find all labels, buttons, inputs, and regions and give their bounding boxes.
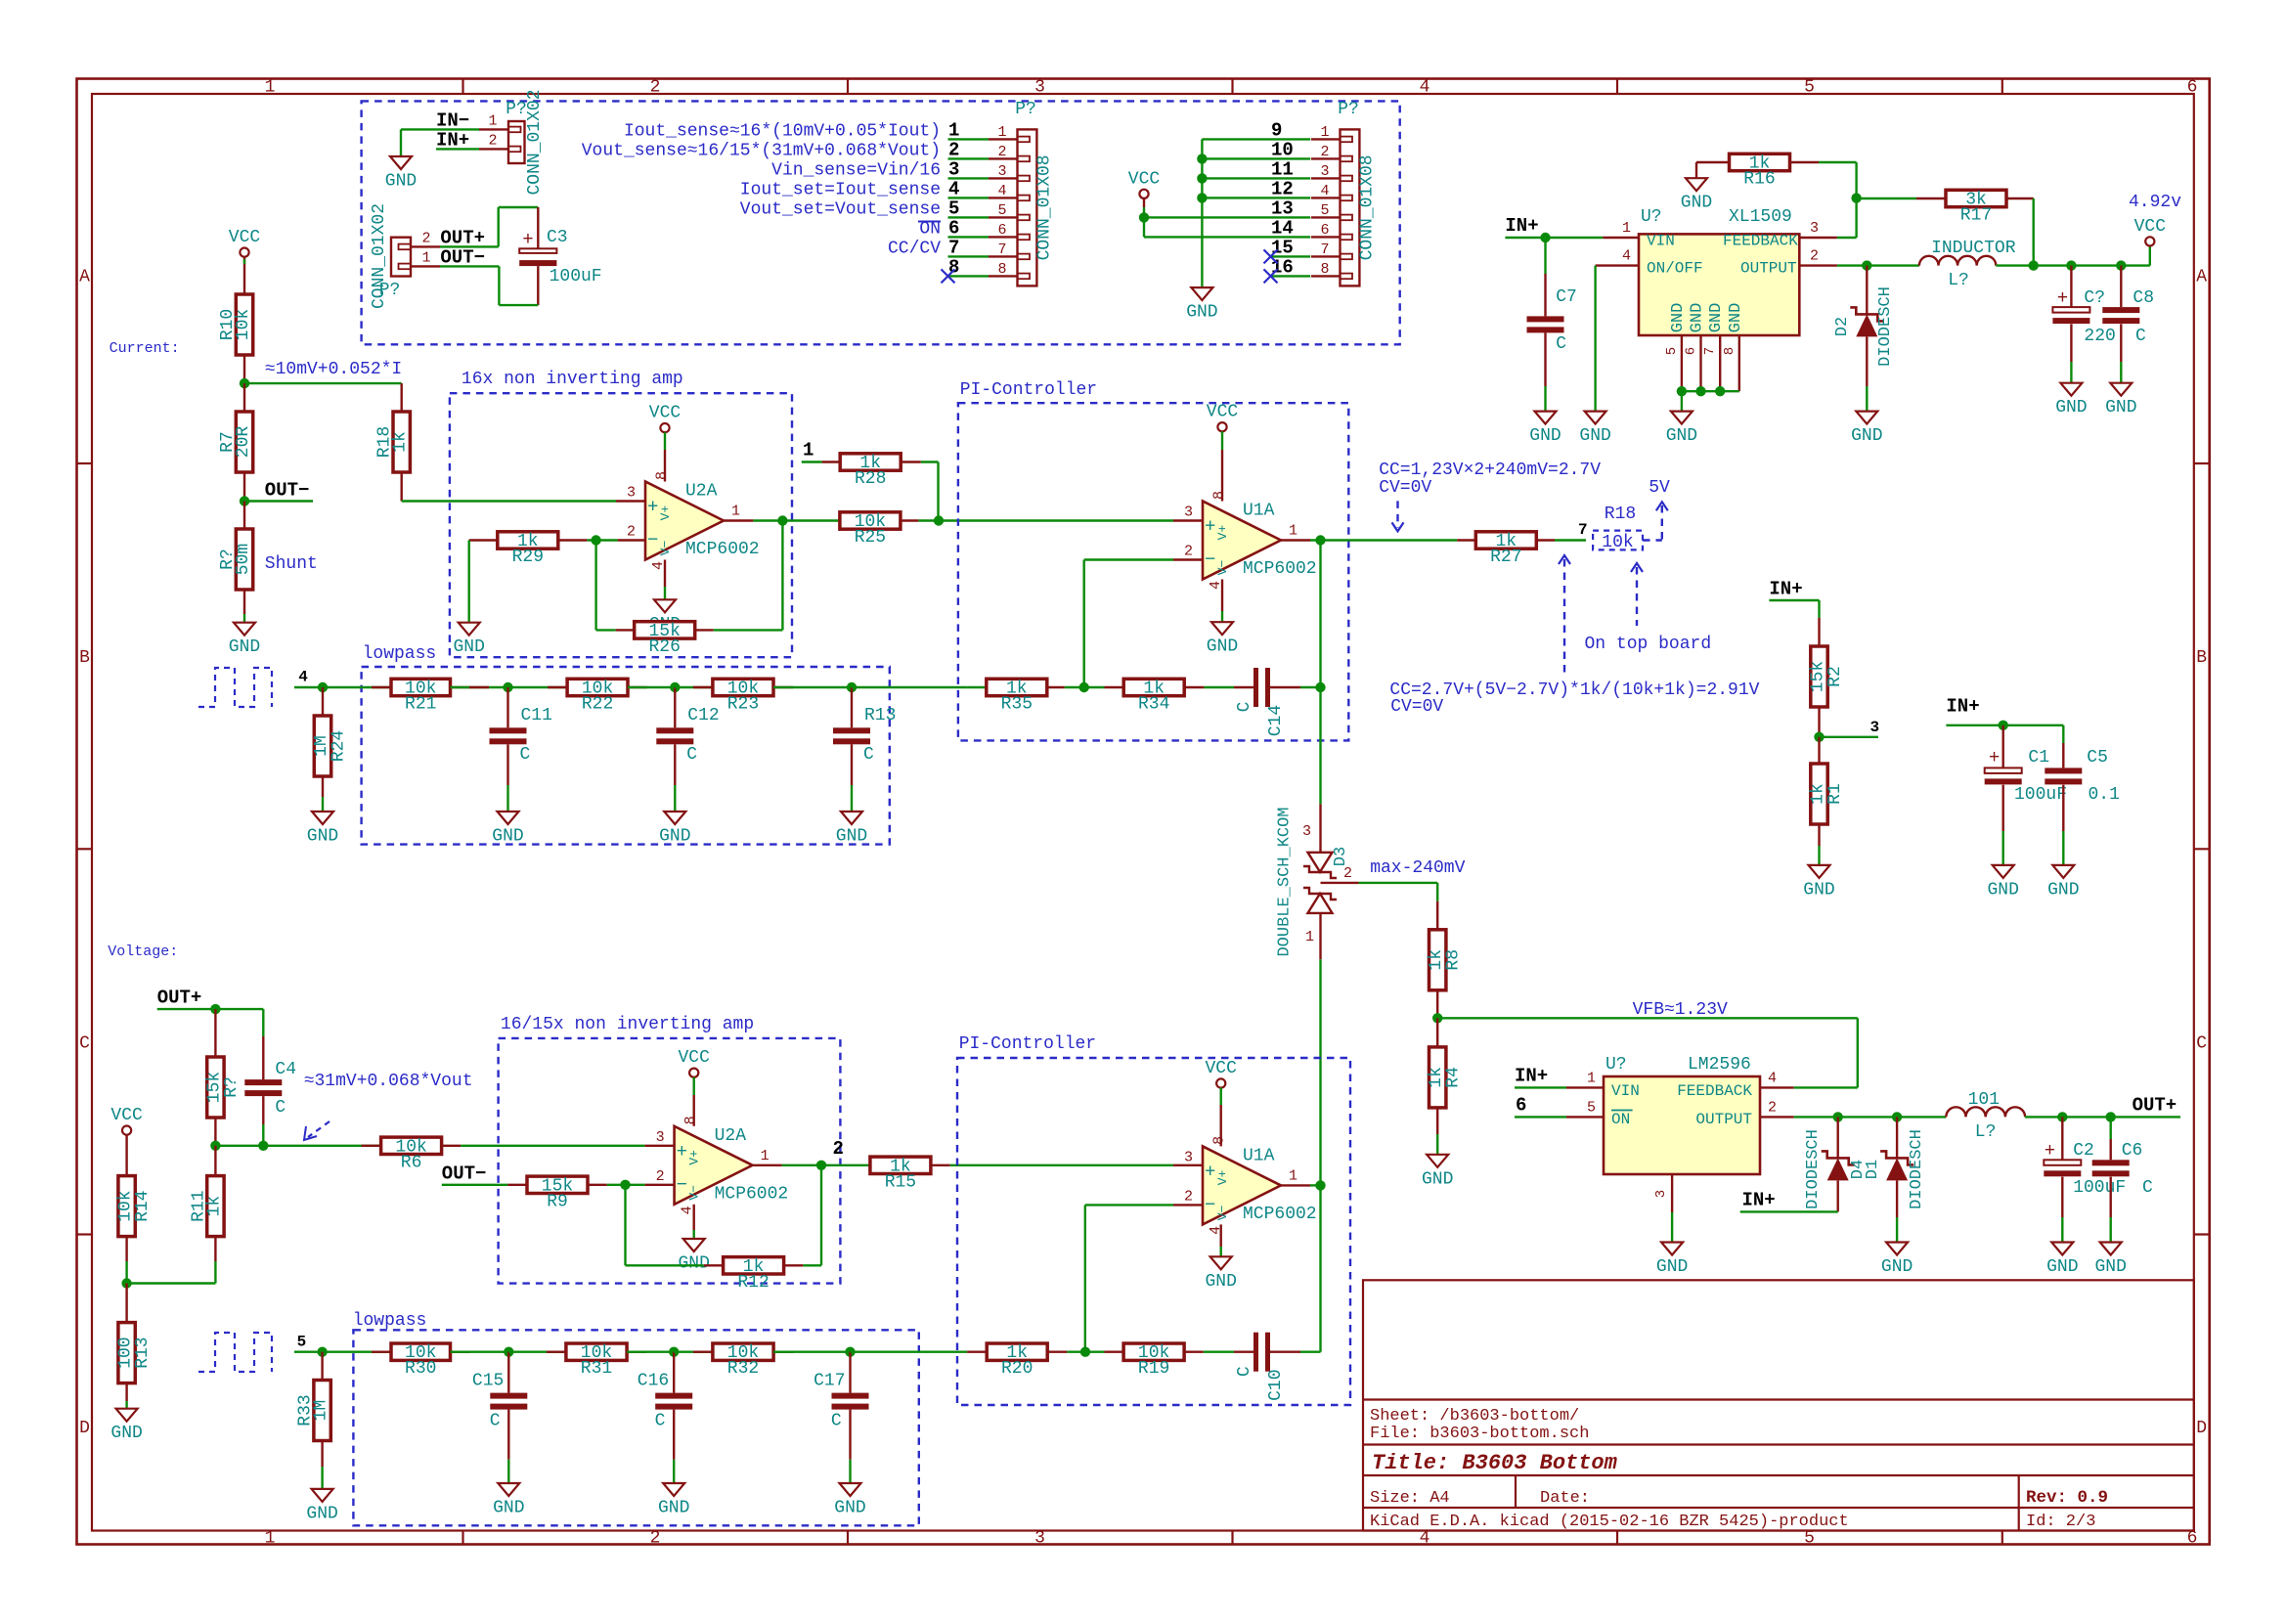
svg-text:L?: L? bbox=[1948, 271, 1969, 290]
svg-text:Date:: Date: bbox=[1540, 1489, 1590, 1508]
svg-text:≈31mV+0.068*Vout: ≈31mV+0.068*Vout bbox=[304, 1072, 473, 1091]
svg-text:C1: C1 bbox=[2028, 748, 2049, 768]
svg-text:1: 1 bbox=[421, 250, 430, 267]
svg-text:GND: GND bbox=[1851, 426, 1882, 446]
svg-text:R16: R16 bbox=[1743, 170, 1775, 190]
svg-text:P?: P? bbox=[1015, 100, 1036, 119]
svg-text:XL1509: XL1509 bbox=[1729, 207, 1792, 227]
svg-text:1: 1 bbox=[948, 119, 959, 141]
svg-text:Id: 2/3: Id: 2/3 bbox=[2026, 1513, 2095, 1531]
svg-text:FEEDBACK: FEEDBACK bbox=[1677, 1082, 1752, 1100]
svg-text:CONN_01X08: CONN_01X08 bbox=[1035, 154, 1055, 260]
svg-text:Sheet: /b3603-bottom/: Sheet: /b3603-bottom/ bbox=[1370, 1407, 1579, 1426]
svg-text:5: 5 bbox=[297, 1334, 307, 1351]
svg-text:2: 2 bbox=[833, 1138, 844, 1160]
svg-text:C: C bbox=[655, 1412, 666, 1431]
svg-text:13: 13 bbox=[1271, 198, 1294, 219]
svg-text:3: 3 bbox=[997, 163, 1006, 180]
svg-text:2: 2 bbox=[1343, 865, 1352, 882]
svg-text:2: 2 bbox=[650, 78, 661, 98]
svg-text:OUT+: OUT+ bbox=[2133, 1094, 2177, 1116]
svg-text:C8: C8 bbox=[2133, 288, 2154, 308]
svg-text:1: 1 bbox=[488, 113, 497, 130]
svg-text:R26: R26 bbox=[648, 637, 680, 657]
svg-text:R1: R1 bbox=[1825, 783, 1845, 805]
svg-text:C6: C6 bbox=[2122, 1141, 2143, 1161]
svg-text:C: C bbox=[2135, 327, 2146, 346]
svg-text:6: 6 bbox=[1320, 222, 1329, 239]
svg-text:VCC: VCC bbox=[1205, 1059, 1237, 1078]
svg-text:GND: GND bbox=[1422, 1169, 1453, 1189]
svg-text:lowpass: lowpass bbox=[353, 1311, 427, 1331]
svg-text:GND: GND bbox=[492, 827, 523, 847]
svg-text:R8: R8 bbox=[1444, 949, 1464, 971]
svg-text:GND: GND bbox=[493, 1499, 524, 1518]
svg-text:CC/CV: CC/CV bbox=[888, 239, 941, 258]
svg-text:C: C bbox=[275, 1098, 286, 1118]
svg-text:U1A: U1A bbox=[1243, 1146, 1275, 1165]
svg-text:MCP6002: MCP6002 bbox=[1243, 559, 1317, 579]
svg-text:OUTPUT: OUTPUT bbox=[1695, 1111, 1752, 1128]
svg-text:Vin_sense=Vin/16: Vin_sense=Vin/16 bbox=[771, 160, 941, 180]
svg-text:R31: R31 bbox=[581, 1359, 612, 1379]
svg-text:IN+: IN+ bbox=[1515, 1065, 1548, 1086]
svg-text:3: 3 bbox=[1034, 1529, 1045, 1549]
svg-text:C: C bbox=[1235, 1366, 1254, 1377]
svg-text:R7: R7 bbox=[218, 431, 238, 453]
svg-text:C5: C5 bbox=[2087, 748, 2108, 768]
svg-text:R33: R33 bbox=[296, 1394, 316, 1426]
svg-text:C11: C11 bbox=[521, 706, 552, 725]
svg-text:GND: GND bbox=[1689, 303, 1707, 333]
svg-text:GND: GND bbox=[1656, 1257, 1688, 1277]
svg-text:VCC: VCC bbox=[1207, 403, 1239, 422]
svg-text:+: + bbox=[2045, 1140, 2055, 1162]
svg-text:C: C bbox=[686, 745, 697, 765]
svg-text:GND: GND bbox=[1707, 303, 1726, 333]
svg-text:+: + bbox=[647, 497, 658, 518]
svg-text:CC=1,23V×2+240mV=2.7V: CC=1,23V×2+240mV=2.7V bbox=[1379, 461, 1601, 480]
svg-text:2: 2 bbox=[656, 1168, 665, 1185]
svg-text:V+: V+ bbox=[1215, 525, 1230, 541]
svg-text:D: D bbox=[79, 1419, 90, 1438]
svg-text:2: 2 bbox=[997, 144, 1006, 160]
svg-text:C: C bbox=[863, 745, 874, 765]
svg-text:100uF: 100uF bbox=[2073, 1178, 2126, 1198]
svg-text:15: 15 bbox=[1271, 237, 1294, 258]
svg-text:R28: R28 bbox=[855, 469, 886, 489]
svg-text:3: 3 bbox=[1320, 163, 1329, 180]
svg-text:1: 1 bbox=[1289, 523, 1297, 540]
svg-text:V−: V− bbox=[1215, 560, 1230, 576]
svg-text:C: C bbox=[2196, 1033, 2207, 1053]
svg-text:1: 1 bbox=[761, 1148, 770, 1164]
svg-text:max-240mV: max-240mV bbox=[1370, 858, 1465, 878]
svg-text:C16: C16 bbox=[638, 1372, 669, 1391]
svg-text:C: C bbox=[2142, 1178, 2153, 1198]
svg-text:2: 2 bbox=[650, 1529, 661, 1549]
svg-text:101: 101 bbox=[1968, 1090, 2000, 1110]
svg-text:GND: GND bbox=[658, 1499, 689, 1518]
svg-text:3: 3 bbox=[948, 158, 959, 180]
svg-text:2: 2 bbox=[1810, 248, 1819, 265]
svg-text:R10: R10 bbox=[218, 309, 238, 340]
svg-text:3: 3 bbox=[1870, 719, 1880, 736]
svg-text:7: 7 bbox=[1578, 521, 1588, 539]
svg-text:VCC: VCC bbox=[649, 404, 682, 423]
svg-text:ON: ON bbox=[1611, 1111, 1630, 1128]
svg-text:R6: R6 bbox=[401, 1153, 422, 1172]
svg-text:R23: R23 bbox=[727, 695, 759, 715]
svg-text:R18: R18 bbox=[375, 426, 395, 458]
svg-text:R32: R32 bbox=[727, 1359, 759, 1379]
svg-text:GND: GND bbox=[2046, 1257, 2078, 1277]
svg-text:12: 12 bbox=[1271, 178, 1294, 199]
svg-text:V+: V+ bbox=[658, 505, 673, 521]
svg-text:V−: V− bbox=[1215, 1205, 1230, 1220]
svg-text:3: 3 bbox=[1184, 1149, 1193, 1165]
svg-text:8: 8 bbox=[997, 261, 1006, 278]
svg-text:Iout_sense≈16*(10mV+0.05*Iout): Iout_sense≈16*(10mV+0.05*Iout) bbox=[624, 121, 941, 141]
svg-text:D2: D2 bbox=[1833, 317, 1852, 336]
svg-text:GND: GND bbox=[2105, 398, 2136, 417]
svg-text:6: 6 bbox=[1684, 347, 1699, 355]
svg-text:R14: R14 bbox=[133, 1190, 153, 1221]
svg-text:8: 8 bbox=[1211, 491, 1228, 500]
svg-text:U2A: U2A bbox=[715, 1126, 747, 1146]
svg-text:1: 1 bbox=[1320, 124, 1329, 141]
svg-text:ON/OFF: ON/OFF bbox=[1647, 259, 1703, 277]
svg-text:Shunt: Shunt bbox=[265, 554, 318, 574]
svg-text:GND: GND bbox=[453, 637, 484, 657]
svg-text:GND: GND bbox=[1681, 194, 1712, 213]
svg-text:B: B bbox=[79, 648, 90, 668]
svg-text:3: 3 bbox=[1810, 220, 1819, 237]
svg-text:R21: R21 bbox=[405, 695, 436, 715]
svg-text:2: 2 bbox=[488, 133, 497, 150]
svg-text:2: 2 bbox=[1184, 1188, 1193, 1205]
svg-text:8: 8 bbox=[654, 471, 671, 480]
svg-text:R20: R20 bbox=[1001, 1359, 1033, 1379]
svg-text:5V: 5V bbox=[1649, 478, 1670, 498]
svg-text:GND: GND bbox=[1205, 1272, 1236, 1292]
svg-text:16x non inverting amp: 16x non inverting amp bbox=[462, 370, 683, 389]
svg-text:1: 1 bbox=[997, 124, 1006, 141]
svg-text:U2A: U2A bbox=[685, 482, 718, 502]
svg-text:R?: R? bbox=[218, 549, 238, 570]
svg-text:3: 3 bbox=[1653, 1190, 1669, 1198]
svg-text:−: − bbox=[1205, 549, 1215, 571]
svg-text:U?: U? bbox=[1605, 1055, 1627, 1075]
svg-text:IN+: IN+ bbox=[1742, 1189, 1776, 1210]
svg-text:5: 5 bbox=[948, 198, 959, 219]
svg-text:−: − bbox=[647, 530, 658, 551]
svg-text:C: C bbox=[1556, 334, 1566, 354]
svg-text:GND: GND bbox=[110, 1424, 142, 1443]
svg-text:4: 4 bbox=[1320, 183, 1329, 199]
svg-text:C: C bbox=[831, 1412, 842, 1431]
svg-text:7: 7 bbox=[997, 241, 1006, 258]
svg-text:3: 3 bbox=[627, 485, 636, 502]
svg-text:A: A bbox=[2196, 268, 2207, 287]
svg-text:1: 1 bbox=[1587, 1070, 1596, 1086]
svg-text:GND: GND bbox=[1987, 880, 2018, 900]
svg-text:lowpass: lowpass bbox=[363, 644, 437, 664]
svg-text:7: 7 bbox=[948, 237, 959, 258]
svg-text:R13: R13 bbox=[133, 1337, 153, 1368]
svg-text:CV=0V: CV=0V bbox=[1379, 478, 1431, 498]
svg-text:R13: R13 bbox=[864, 706, 896, 725]
svg-text:KiCad E.D.A. kicad (2015-02-1: KiCad E.D.A. kicad (2015-02-16 BZR 5425)… bbox=[1370, 1513, 1849, 1531]
svg-text:OUTPUT: OUTPUT bbox=[1740, 259, 1797, 277]
svg-text:GND: GND bbox=[1529, 426, 1561, 446]
svg-text:GND: GND bbox=[1803, 880, 1834, 900]
svg-text:GND: GND bbox=[1207, 637, 1238, 657]
svg-text:V−: V− bbox=[658, 541, 673, 556]
svg-text:−: − bbox=[677, 1174, 687, 1196]
svg-text:C: C bbox=[490, 1412, 501, 1431]
svg-text:VCC: VCC bbox=[678, 1048, 710, 1068]
svg-text:9: 9 bbox=[1271, 119, 1282, 141]
svg-text:R22: R22 bbox=[582, 695, 613, 715]
svg-text:5: 5 bbox=[997, 202, 1006, 219]
svg-text:File: b3603-bottom.sch: File: b3603-bottom.sch bbox=[1370, 1425, 1589, 1443]
svg-text:OUT−: OUT− bbox=[440, 246, 485, 268]
svg-text:GND: GND bbox=[1669, 303, 1688, 333]
svg-text:DIODESCH: DIODESCH bbox=[1804, 1129, 1823, 1209]
svg-text:C?: C? bbox=[2084, 288, 2105, 308]
svg-text:R2: R2 bbox=[1825, 666, 1845, 687]
svg-text:Voltage:: Voltage: bbox=[108, 944, 178, 960]
svg-text:R15: R15 bbox=[885, 1172, 916, 1192]
svg-text:+: + bbox=[1205, 516, 1215, 538]
svg-text:VCC: VCC bbox=[2134, 217, 2167, 237]
svg-text:−: − bbox=[1205, 1194, 1215, 1215]
svg-text:3: 3 bbox=[656, 1129, 665, 1146]
svg-text:VIN: VIN bbox=[1611, 1082, 1640, 1100]
svg-text:R27: R27 bbox=[1490, 548, 1521, 567]
svg-text:IN+: IN+ bbox=[1505, 215, 1538, 237]
svg-text:GND: GND bbox=[1881, 1257, 1913, 1277]
svg-text:IN+: IN+ bbox=[1769, 578, 1802, 599]
svg-text:5: 5 bbox=[1804, 78, 1815, 98]
svg-text:1: 1 bbox=[1289, 1167, 1297, 1184]
svg-text:GND: GND bbox=[836, 827, 867, 847]
svg-text:100uF: 100uF bbox=[2014, 785, 2067, 805]
svg-text:4: 4 bbox=[298, 669, 308, 686]
svg-text:Vout_set=Vout_sense: Vout_set=Vout_sense bbox=[740, 199, 941, 219]
svg-text:GND: GND bbox=[1579, 426, 1610, 446]
svg-text:DOUBLE_SCH_KCOM: DOUBLE_SCH_KCOM bbox=[1276, 807, 1295, 956]
svg-text:7: 7 bbox=[1702, 347, 1718, 355]
svg-text:V+: V+ bbox=[687, 1150, 702, 1165]
svg-text:On top board: On top board bbox=[1585, 635, 1712, 654]
svg-text:GND: GND bbox=[385, 172, 417, 192]
svg-text:2: 2 bbox=[421, 231, 430, 247]
svg-text:1: 1 bbox=[265, 78, 276, 98]
svg-text:1: 1 bbox=[731, 504, 740, 520]
svg-text:4: 4 bbox=[1420, 78, 1430, 98]
svg-text:16/15x non inverting amp: 16/15x non inverting amp bbox=[501, 1015, 754, 1034]
svg-text:R35: R35 bbox=[1001, 695, 1033, 715]
svg-text:5: 5 bbox=[1320, 202, 1329, 219]
svg-text:IN+: IN+ bbox=[1946, 696, 1979, 718]
svg-text:U?: U? bbox=[1641, 207, 1662, 227]
svg-text:220: 220 bbox=[2084, 327, 2115, 346]
svg-text:GND: GND bbox=[678, 1254, 709, 1274]
svg-text:Size: A4: Size: A4 bbox=[1370, 1489, 1450, 1508]
svg-text:≈10mV+0.052*I: ≈10mV+0.052*I bbox=[265, 360, 402, 379]
svg-text:R17: R17 bbox=[1960, 206, 1992, 226]
svg-text:R34: R34 bbox=[1138, 695, 1169, 715]
svg-text:MCP6002: MCP6002 bbox=[1243, 1205, 1317, 1224]
svg-text:FEEDBACK: FEEDBACK bbox=[1723, 233, 1798, 250]
svg-text:1: 1 bbox=[1622, 220, 1631, 237]
svg-text:5: 5 bbox=[1587, 1099, 1596, 1116]
svg-text:2: 2 bbox=[948, 139, 959, 160]
svg-text:VIN: VIN bbox=[1647, 233, 1675, 250]
svg-text:3: 3 bbox=[1302, 823, 1311, 840]
svg-text:R24: R24 bbox=[330, 730, 349, 762]
svg-text:V−: V− bbox=[687, 1185, 702, 1201]
svg-text:V+: V+ bbox=[1215, 1169, 1230, 1185]
svg-text:DIODESCH: DIODESCH bbox=[1908, 1129, 1926, 1209]
svg-text:IN−: IN− bbox=[436, 110, 469, 131]
svg-text:LM2596: LM2596 bbox=[1688, 1055, 1751, 1075]
svg-text:PI-Controller: PI-Controller bbox=[959, 1034, 1096, 1054]
svg-text:4: 4 bbox=[997, 183, 1006, 199]
svg-text:2: 2 bbox=[1768, 1099, 1777, 1116]
svg-text:OUT−: OUT− bbox=[442, 1163, 487, 1184]
svg-text:C4: C4 bbox=[275, 1060, 296, 1079]
svg-text:GND: GND bbox=[2047, 880, 2079, 900]
svg-text:VCC: VCC bbox=[1128, 169, 1161, 189]
svg-text:C17: C17 bbox=[814, 1372, 845, 1391]
svg-text:CONN_01X02: CONN_01X02 bbox=[525, 89, 545, 195]
svg-text:GND: GND bbox=[306, 1504, 337, 1523]
svg-text:GND: GND bbox=[229, 637, 260, 657]
svg-text:1: 1 bbox=[265, 1529, 276, 1549]
svg-text:D1: D1 bbox=[1864, 1160, 1882, 1179]
svg-text:C: C bbox=[1235, 701, 1254, 712]
svg-text:7: 7 bbox=[1320, 241, 1329, 258]
svg-text:VFB≈1.23V: VFB≈1.23V bbox=[1633, 1000, 1728, 1020]
svg-text:10k: 10k bbox=[1602, 533, 1633, 552]
svg-text:0.1: 0.1 bbox=[2089, 785, 2120, 805]
svg-text:R29: R29 bbox=[512, 548, 544, 567]
svg-text:GND: GND bbox=[1666, 426, 1697, 446]
svg-text:8: 8 bbox=[682, 1116, 699, 1124]
svg-text:C: C bbox=[79, 1033, 90, 1053]
svg-text:Current:: Current: bbox=[110, 340, 180, 357]
svg-text:U1A: U1A bbox=[1243, 502, 1275, 521]
svg-text:+: + bbox=[1989, 747, 2000, 768]
svg-text:2: 2 bbox=[1320, 144, 1329, 160]
svg-text:+: + bbox=[677, 1141, 687, 1163]
svg-text:11: 11 bbox=[1271, 158, 1294, 180]
svg-text:4.92v: 4.92v bbox=[2129, 193, 2181, 212]
svg-text:1: 1 bbox=[803, 440, 814, 461]
svg-text:R?: R? bbox=[222, 1076, 242, 1098]
svg-text:8: 8 bbox=[1320, 261, 1329, 278]
svg-text:C10: C10 bbox=[1266, 1369, 1286, 1400]
svg-text:C15: C15 bbox=[472, 1372, 504, 1391]
svg-text:4: 4 bbox=[1768, 1070, 1777, 1086]
svg-text:B: B bbox=[2196, 648, 2207, 668]
svg-text:+: + bbox=[522, 229, 533, 250]
svg-text:R4: R4 bbox=[1444, 1067, 1464, 1088]
svg-text:CONN_01X02: CONN_01X02 bbox=[370, 203, 389, 309]
svg-text:R25: R25 bbox=[855, 528, 886, 548]
svg-text:+: + bbox=[1205, 1161, 1215, 1182]
svg-text:C7: C7 bbox=[1556, 287, 1577, 307]
svg-text:Iout_set=Iout_sense: Iout_set=Iout_sense bbox=[740, 180, 941, 199]
svg-text:R19: R19 bbox=[1138, 1359, 1169, 1379]
svg-text:C2: C2 bbox=[2073, 1141, 2094, 1161]
svg-text:3: 3 bbox=[1034, 78, 1045, 98]
svg-text:VCC: VCC bbox=[110, 1106, 143, 1125]
svg-text:C3: C3 bbox=[547, 228, 568, 247]
svg-text:GND: GND bbox=[834, 1499, 865, 1518]
svg-text:A: A bbox=[79, 268, 90, 287]
svg-text:P?: P? bbox=[1338, 100, 1359, 119]
svg-text:OUT−: OUT− bbox=[265, 480, 310, 502]
svg-text:+: + bbox=[2057, 287, 2068, 309]
svg-text:6: 6 bbox=[997, 222, 1006, 239]
svg-text:GND: GND bbox=[2094, 1257, 2126, 1277]
svg-text:8: 8 bbox=[1722, 347, 1737, 355]
svg-text:100uF: 100uF bbox=[550, 267, 602, 286]
svg-text:GND: GND bbox=[1186, 303, 1217, 323]
svg-text:D3: D3 bbox=[1332, 847, 1350, 866]
svg-text:IN+: IN+ bbox=[436, 129, 469, 151]
svg-text:D: D bbox=[2196, 1419, 2207, 1438]
svg-text:4: 4 bbox=[1622, 248, 1631, 265]
svg-text:Vout_sense≈16/15*(31mV+0.068*V: Vout_sense≈16/15*(31mV+0.068*Vout) bbox=[582, 141, 941, 160]
svg-text:C: C bbox=[520, 745, 531, 765]
svg-text:2: 2 bbox=[1184, 544, 1193, 560]
svg-text:3: 3 bbox=[1184, 505, 1193, 521]
svg-text:1: 1 bbox=[1305, 929, 1314, 945]
svg-text:CC=2.7V+(5V−2.7V)*1k/(10k+1k)=: CC=2.7V+(5V−2.7V)*1k/(10k+1k)=2.91V bbox=[1389, 680, 1759, 700]
svg-text:8: 8 bbox=[1211, 1136, 1228, 1145]
svg-text:2: 2 bbox=[627, 524, 636, 541]
svg-text:GND: GND bbox=[2055, 398, 2087, 417]
svg-text:GND: GND bbox=[307, 827, 338, 847]
svg-text:DIODESCH: DIODESCH bbox=[1876, 286, 1895, 367]
svg-text:R12: R12 bbox=[737, 1273, 769, 1293]
svg-text:MCP6002: MCP6002 bbox=[685, 540, 760, 559]
svg-text:R9: R9 bbox=[547, 1192, 568, 1211]
svg-text:CV=0V: CV=0V bbox=[1390, 697, 1443, 717]
svg-text:CONN_01X08: CONN_01X08 bbox=[1358, 154, 1378, 260]
svg-text:5: 5 bbox=[1664, 347, 1680, 355]
svg-text:MCP6002: MCP6002 bbox=[715, 1184, 789, 1204]
svg-text:L?: L? bbox=[1975, 1122, 1997, 1142]
svg-text:14: 14 bbox=[1271, 217, 1294, 239]
svg-text:Rev: 0.9: Rev: 0.9 bbox=[2026, 1488, 2108, 1508]
svg-text:INDUCTOR: INDUCTOR bbox=[1931, 239, 2016, 258]
svg-text:R30: R30 bbox=[405, 1359, 436, 1379]
svg-text:Title: B3603 Bottom: Title: B3603 Bottom bbox=[1372, 1451, 1618, 1475]
svg-text:OUT+: OUT+ bbox=[440, 227, 485, 248]
svg-text:6: 6 bbox=[1516, 1094, 1526, 1116]
svg-text:6: 6 bbox=[2187, 78, 2198, 98]
svg-text:GND: GND bbox=[659, 827, 690, 847]
svg-text:OUT+: OUT+ bbox=[157, 987, 202, 1008]
svg-text:C14: C14 bbox=[1266, 705, 1286, 736]
svg-text:C12: C12 bbox=[687, 706, 719, 725]
